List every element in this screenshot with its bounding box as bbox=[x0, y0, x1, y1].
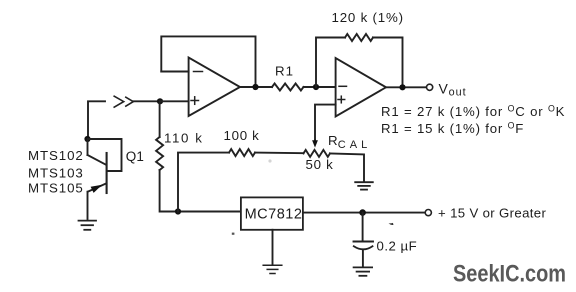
svg-text:100 k: 100 k bbox=[224, 128, 260, 143]
svg-text:R1: R1 bbox=[275, 64, 294, 79]
transistor Q1 (diode-connected, MTS102/103/105) bbox=[88, 139, 122, 193]
resistor 120k bbox=[345, 34, 373, 41]
wire capacitor to ground bbox=[362, 251, 364, 267]
wire junction to capacitor bbox=[362, 213, 364, 242]
resistor 110k bbox=[156, 137, 163, 170]
wire feedback loop U2 top/right bbox=[373, 38, 403, 88]
potentiometer RCAL 50k bbox=[304, 150, 331, 157]
speck artifact near +15V wire bbox=[389, 223, 394, 225]
wire Q1 emitter to ground bbox=[87, 192, 89, 219]
wire 110k to +12V rail bbox=[160, 170, 241, 212]
ground below Q1 bbox=[79, 221, 97, 230]
wire U2 + input stub bbox=[315, 105, 336, 140]
ground below capacitor bbox=[354, 267, 373, 275]
wire MC7812 ground pin bbox=[272, 230, 274, 264]
terminal Vout (open circle) bbox=[427, 84, 433, 90]
svg-text:out: out bbox=[449, 87, 467, 99]
svg-text:Q1: Q1 bbox=[126, 149, 144, 164]
wiper arrow of RCAL bbox=[312, 140, 318, 148]
chevron arrows on input wire bbox=[114, 96, 133, 107]
wire U1 output bbox=[240, 86, 272, 88]
ground below RCAL bbox=[355, 182, 373, 189]
svg-text:120 k (1%): 120 k (1%) bbox=[332, 10, 404, 25]
regulator U3 MC7812 bbox=[241, 197, 303, 229]
op-amp U1 bbox=[189, 58, 240, 117]
label MTS102 MTS103 MTS105 bbox=[28, 148, 84, 195]
wire feedback loop U2 left/top bbox=[316, 38, 345, 88]
wire RCAL to ground bbox=[330, 153, 364, 181]
resistor R1 bbox=[272, 84, 304, 91]
svg-text:R1 = 15 k (1%) for OF: R1 = 15 k (1%) for OF bbox=[381, 121, 524, 137]
wire 100k to RCAL bbox=[255, 152, 304, 155]
speck artifact faint left of 100k bbox=[268, 159, 271, 162]
node R1/U2 input junction bbox=[313, 84, 319, 90]
wire feedback loop U1 bbox=[161, 36, 255, 87]
svg-text:MTS102: MTS102 bbox=[28, 148, 84, 163]
svg-text:R: R bbox=[328, 133, 338, 148]
ground below MC7812 bbox=[263, 265, 282, 273]
op-amp U2 bbox=[336, 58, 386, 117]
node rail junction bbox=[175, 208, 181, 214]
wire node A down to 110k bbox=[159, 101, 161, 137]
wire rail junction up to 100k bbox=[178, 153, 229, 212]
svg-text:50 k: 50 k bbox=[306, 157, 334, 172]
speck artifact near rail bbox=[232, 233, 235, 235]
wire input top-left bbox=[88, 101, 160, 139]
wire R1 to U2 inverting input bbox=[304, 86, 336, 88]
label R1 value equations bbox=[381, 103, 565, 136]
wire MC7812 input from +15V terminal bbox=[303, 212, 425, 214]
label Vout bbox=[439, 81, 467, 99]
svg-text:MTS105: MTS105 bbox=[28, 180, 84, 195]
node U2 output junction bbox=[399, 84, 405, 90]
svg-text:MTS103: MTS103 bbox=[28, 166, 84, 181]
svg-text:R1 = 27 k (1%) for OC or OK: R1 = 27 k (1%) for OC or OK bbox=[381, 103, 565, 119]
node B junction base/collector of Q1 bbox=[84, 136, 90, 142]
wire op-amp1 - input from feedback bbox=[161, 71, 188, 73]
resistor 100k bbox=[229, 149, 255, 156]
wire op-amp1 + input bbox=[160, 100, 189, 102]
svg-text:V: V bbox=[439, 81, 449, 97]
svg-text:+ 15 V or Greater: + 15 V or Greater bbox=[438, 206, 546, 221]
capacitor C1 0.2uF bbox=[354, 242, 374, 250]
svg-text:110 k: 110 k bbox=[164, 131, 204, 146]
node capacitor junction bbox=[359, 209, 366, 216]
svg-text:SeekIC.com: SeekIC.com bbox=[453, 261, 566, 288]
svg-text:CAL: CAL bbox=[338, 139, 371, 151]
node U1 output junction bbox=[252, 84, 258, 90]
label RCAL bbox=[328, 133, 371, 151]
svg-text:MC7812: MC7812 bbox=[245, 207, 303, 223]
terminal +15V (open circle) bbox=[425, 210, 431, 216]
node A junction op-amp1 noninverting input bbox=[157, 98, 163, 104]
svg-text:0.2 µF: 0.2 µF bbox=[377, 239, 418, 254]
wire U2 output bbox=[386, 86, 427, 88]
